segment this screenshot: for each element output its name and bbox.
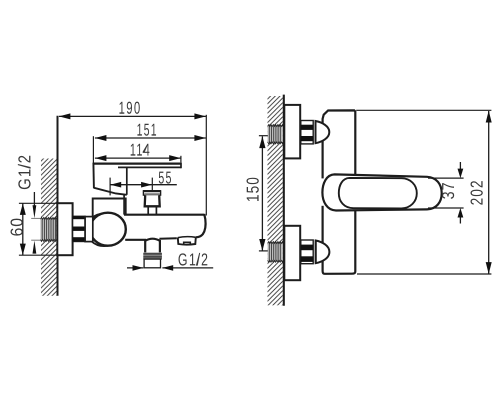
- extension line 114 right: [180, 156, 182, 163]
- diverter knob cap: [143, 191, 160, 195]
- value label 202 (rotated): [471, 181, 483, 205]
- extension line left (151/114): [92, 136, 94, 163]
- top eccentric cone: [316, 121, 330, 143]
- value label 60 (rotated): [11, 219, 23, 236]
- top escutcheon plate: [284, 105, 300, 158]
- body edge cover under lever: [321, 178, 326, 205]
- dimension 60: [11, 203, 60, 255]
- spout right edge: [196, 214, 206, 237]
- wall pipe thread G1/2 left: [40, 217, 56, 241]
- wall flange: [57, 203, 72, 255]
- aerator: [178, 237, 196, 244]
- value label 114: [131, 144, 150, 156]
- dimension 150: [247, 136, 268, 251]
- value label 150 (rotated): [247, 178, 259, 201]
- top wall pipe thread: [268, 125, 283, 144]
- mixer body (side view): [323, 110, 356, 273]
- dimension G1/2 top-left (rotated label): [18, 156, 41, 254]
- top union nut: [301, 121, 313, 144]
- extension line 55 left: [109, 178, 111, 196]
- shower outlet tube: [145, 239, 160, 253]
- bottom union nut: [301, 240, 313, 264]
- lever handle plate: [93, 163, 181, 195]
- body block behind dome: [93, 199, 126, 217]
- wall face line left: [57, 116, 59, 296]
- bottom escutcheon plate: [284, 226, 300, 280]
- cartridge dome circle: [90, 213, 126, 246]
- value label G1/2 (inlet, rotated): [18, 156, 31, 189]
- value label 151: [137, 124, 156, 136]
- dimension 114: [95, 144, 181, 161]
- body top line: [124, 214, 204, 216]
- value label G1/2 (shower hose): [179, 253, 208, 266]
- extension line 55 right: [151, 178, 153, 191]
- value label 190: [119, 102, 139, 114]
- lever (side view, outer): [322, 174, 441, 210]
- wall hatching left: [41, 159, 57, 296]
- dimension 202: [356, 110, 492, 274]
- bottom eccentric cone: [316, 241, 330, 264]
- wall hatching right: [268, 96, 283, 305]
- dimension 190: [59, 102, 206, 120]
- wall face line right: [283, 95, 285, 306]
- shower outlet thread G1/2: [143, 253, 162, 260]
- bottom wall pipe thread: [268, 242, 283, 263]
- shower outlet collar: [144, 259, 160, 268]
- dimension 151: [95, 124, 206, 141]
- aerator slot: [184, 242, 191, 244]
- value label 37 (rotated): [442, 183, 454, 199]
- union connector: [85, 217, 93, 242]
- union nut: [73, 216, 86, 241]
- dimension 37: [428, 162, 464, 224]
- handle stem: [123, 195, 125, 215]
- diverter knob stem: [147, 207, 149, 214]
- dimension G1/2 bottom: [127, 253, 213, 271]
- escutcheon ring behind dome: [86, 214, 121, 247]
- body bottom line (left of shower outlet): [125, 239, 146, 241]
- lever inner contour: [339, 178, 417, 209]
- body bottom line (right of shower outlet): [159, 237, 176, 240]
- value label 55: [159, 172, 171, 184]
- diverter knob body: [145, 195, 160, 206]
- extension line right (190/151): [205, 115, 207, 216]
- dimension 55: [110, 172, 177, 188]
